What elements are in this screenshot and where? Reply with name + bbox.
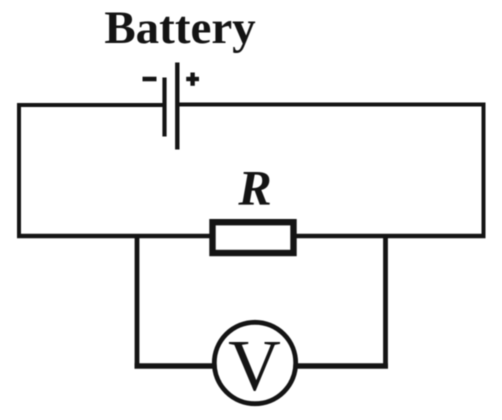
resistor R body xyxy=(213,222,294,253)
wire bottom-right segment of main loop xyxy=(293,234,486,239)
svg-text:R: R xyxy=(237,160,271,216)
svg-text:V: V xyxy=(228,325,281,406)
wire right vertical of main loop xyxy=(482,103,486,239)
battery plus polarity mark xyxy=(186,73,199,86)
wire voltmeter branch right horizontal xyxy=(292,363,388,369)
wire right vertical stub to voltmeter branch xyxy=(383,236,388,366)
battery B1 positive plate (long) xyxy=(175,63,179,150)
voltmeter V1 body xyxy=(214,322,295,403)
svg-text:Battery: Battery xyxy=(104,2,256,54)
wire left vertical stub to voltmeter branch xyxy=(135,236,140,366)
wire top-left segment (battery negative lead) xyxy=(17,103,164,107)
battery B1 negative plate (short) xyxy=(162,78,166,137)
wire left vertical of main loop xyxy=(17,103,21,238)
battery minus polarity mark xyxy=(143,77,157,82)
wire voltmeter branch left horizontal xyxy=(135,363,219,369)
wire bottom-left segment of main loop xyxy=(17,234,213,239)
wire top-right segment (battery positive lead) xyxy=(177,103,486,107)
